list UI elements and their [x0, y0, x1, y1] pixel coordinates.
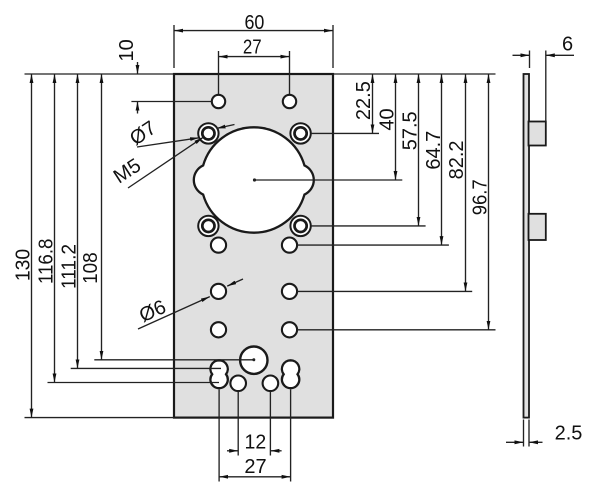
- side view tab upper: [529, 122, 546, 146]
- label M5 with leader: [110, 137, 203, 188]
- dimension 60 top: [174, 12, 333, 68]
- bottom large hole: [240, 347, 267, 374]
- extension line bottom-left (y=417.6): [25, 417, 175, 419]
- svg-text:M5: M5: [110, 155, 145, 189]
- dimension 111.2: [59, 74, 222, 368]
- leader from circle center (40): [253, 178, 402, 181]
- dimension 27 top: [219, 37, 290, 95]
- M5 ringed hole upper-left: [198, 123, 218, 143]
- hole mid2-right: [282, 284, 297, 299]
- side view plate: [524, 74, 530, 418]
- label Ø6 with leader: [136, 279, 243, 329]
- dimension 116.8: [35, 74, 219, 383]
- svg-text:130: 130: [12, 249, 34, 281]
- svg-text:96.7: 96.7: [470, 179, 492, 215]
- hole mid2-left (Ø6): [211, 284, 226, 299]
- M5 ringed hole upper-right: [290, 123, 310, 143]
- leader to hole (57.5): [311, 225, 426, 227]
- svg-text:108: 108: [80, 252, 102, 284]
- svg-text:27: 27: [244, 456, 266, 478]
- svg-text:27: 27: [243, 37, 262, 59]
- hole mid3-left: [211, 322, 226, 337]
- dimension 130: [12, 74, 34, 418]
- extension line top-left (y=74): [25, 73, 175, 75]
- hole mid1-left: [211, 238, 226, 253]
- svg-text:6: 6: [562, 34, 573, 56]
- svg-text:Ø6: Ø6: [136, 296, 169, 327]
- bottom obround left: [210, 360, 227, 388]
- hole top-left: [212, 95, 225, 108]
- svg-text:64.7: 64.7: [423, 131, 445, 170]
- leader to hole (82.2): [297, 290, 472, 292]
- svg-text:22.5: 22.5: [353, 81, 375, 120]
- dimension 10: [116, 39, 212, 113]
- svg-text:111.2: 111.2: [59, 244, 81, 289]
- leader to hole (64.7): [297, 244, 449, 246]
- hole top-right: [283, 95, 296, 108]
- M5 ringed hole lower-left: [198, 216, 218, 236]
- hole mid3-right: [282, 322, 297, 337]
- svg-text:Ø7: Ø7: [126, 117, 160, 150]
- hole mid1-right: [282, 238, 297, 253]
- dimension 12 bottom: [227, 392, 282, 456]
- dimension 82.2: [446, 74, 468, 291]
- svg-text:60: 60: [244, 12, 264, 34]
- svg-text:82.2: 82.2: [446, 140, 468, 179]
- dimension 108: [80, 74, 255, 361]
- extension line top-right (y=74): [333, 73, 496, 75]
- dimension 64.7: [423, 74, 445, 245]
- dimension 27 bottom: [219, 390, 291, 482]
- dimension 2.5 (side view): [506, 420, 582, 447]
- M5 ringed hole lower-right: [290, 216, 310, 236]
- leader to hole (96.7): [297, 329, 495, 331]
- bottom obround right: [282, 360, 299, 388]
- svg-text:10: 10: [116, 39, 138, 61]
- svg-text:12: 12: [245, 431, 267, 453]
- svg-text:116.8: 116.8: [35, 239, 57, 285]
- bottom small hole right: [263, 376, 279, 392]
- dimension 40: [376, 74, 398, 180]
- side view tab lower: [529, 214, 546, 240]
- leader to hole (22.5): [311, 132, 379, 134]
- dimension 57.5: [400, 74, 422, 226]
- dimension 96.7: [470, 74, 492, 330]
- central cylinder cutout: [194, 127, 314, 232]
- plate front view body: [174, 74, 333, 418]
- label Ø7 with leader: [126, 117, 235, 150]
- dimension 6 (side view): [513, 34, 575, 122]
- svg-text:40: 40: [376, 108, 398, 130]
- svg-text:57.5: 57.5: [400, 111, 422, 150]
- dimension 22.5: [353, 74, 375, 133]
- svg-text:2.5: 2.5: [555, 423, 583, 445]
- bottom small hole left: [230, 376, 246, 392]
